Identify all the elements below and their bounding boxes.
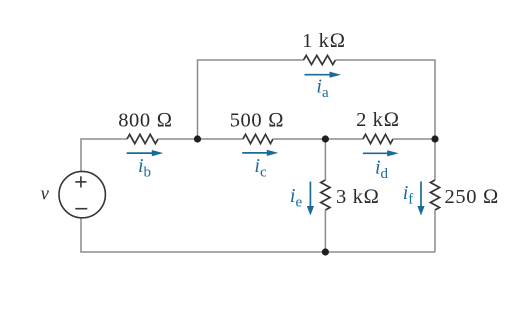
node: junction of 2k/1k/250 branches: [431, 135, 438, 142]
svg-text:ie: ie: [290, 185, 303, 211]
resistor 1 kohm: [304, 55, 336, 64]
current arrow i_a: [305, 72, 342, 78]
wire: right branch upper segment (right node to 250 ohm): [434, 139, 436, 180]
wire: middle rail right segment (2 kohm to right node): [393, 138, 435, 140]
current arrow i_c: [242, 150, 278, 156]
node: junction of 500/2k/3k branches: [322, 135, 329, 142]
current arrow i_f: [417, 182, 424, 216]
svg-text:if: if: [403, 182, 414, 208]
svg-text:2 kΩ: 2 kΩ: [356, 109, 400, 131]
svg-text:ic: ic: [254, 155, 267, 181]
current arrow i_e: [307, 182, 314, 216]
svg-text:500 Ω: 500 Ω: [230, 110, 285, 132]
svg-text:250 Ω: 250 Ω: [445, 186, 500, 208]
wire: middle rail between 800 ohm and 500 ohm: [158, 138, 243, 140]
svg-text:ib: ib: [138, 155, 151, 181]
svg-text:3 kΩ: 3 kΩ: [336, 186, 380, 208]
wire: middle rail left segment (source top to 800 ohm): [81, 139, 127, 172]
svg-text:1 kΩ: 1 kΩ: [302, 30, 346, 52]
node: junction of 800/500/1k branches: [194, 135, 201, 142]
wire: 3 kohm branch lower segment: [324, 210, 326, 252]
node: bottom junction of 3k branch: [322, 248, 329, 255]
resistor 500 ohm: [243, 134, 273, 143]
wire: 3 kohm branch upper segment: [324, 139, 326, 180]
current arrow i_d: [363, 150, 399, 156]
svg-text:id: id: [375, 157, 389, 183]
wire: top branch right (1 kohm to right corner and down): [336, 60, 436, 139]
wire: top branch left (node up and across to 1 kohm): [198, 60, 304, 139]
resistor 800 ohm: [127, 134, 158, 143]
svg-text:ia: ia: [316, 75, 329, 101]
svg-text:v: v: [41, 185, 50, 205]
svg-text:800 Ω: 800 Ω: [118, 110, 173, 132]
resistor 2 kohm: [363, 134, 393, 143]
wire: bottom rail: [81, 218, 435, 252]
wire: middle rail between 500 ohm and 2 kohm: [273, 138, 363, 140]
wire: right branch lower segment (250 ohm to bottom rail): [434, 210, 436, 252]
voltage source v: [59, 171, 105, 217]
current arrow i_b: [127, 150, 164, 156]
resistor 250 ohm: [430, 180, 439, 210]
resistor 3 kohm: [321, 180, 330, 210]
